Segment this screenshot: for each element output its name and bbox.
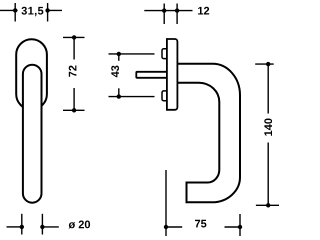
dim 12 right dot	[175, 8, 179, 12]
dim diameter 20 right dot	[40, 225, 44, 229]
screw top	[162, 49, 168, 59]
dim 12 right tick	[176, 4, 178, 25]
dim 12 left tick	[163, 4, 165, 25]
dim 31,5 label	[22, 7, 44, 16]
dim 140 line	[267, 64, 269, 205]
dim 72 label	[69, 66, 77, 77]
dim diameter 20 left dot	[20, 225, 24, 229]
dim diameter 20 right line	[42, 226, 58, 228]
dim 72 top dot	[72, 35, 76, 39]
spindle	[136, 72, 167, 78]
dim 31,5 right dot	[45, 8, 49, 12]
dim 43 top extension line	[109, 53, 155, 55]
dim 12 label	[198, 7, 209, 15]
dim 140 text bg	[261, 114, 276, 143]
dim 43 top dot	[117, 52, 121, 56]
dim 140 bottom tick	[256, 204, 279, 206]
dim 43 text bg	[109, 61, 122, 89]
dim 43 label	[111, 66, 119, 78]
dim 31,5 left dot	[13, 8, 17, 12]
dim diameter 20 left line	[7, 226, 22, 228]
dim 12 left dot	[162, 8, 166, 12]
dim 43 bottom extension line	[109, 96, 155, 98]
dim 43 line	[118, 54, 120, 97]
dim 72 line	[73, 37, 75, 110]
dim 140 bottom dot	[266, 203, 270, 207]
dim 75 right dot	[238, 225, 242, 229]
dim 140 top tick	[255, 63, 274, 65]
dim 140 top dot	[266, 62, 270, 66]
dim 72 top tick	[63, 36, 85, 38]
dim 140 label	[264, 118, 272, 135]
dim 31,5 line	[0, 9, 62, 11]
dim 75 line	[166, 226, 240, 228]
side view handle	[177, 64, 241, 203]
front view grip	[23, 65, 42, 203]
dim diameter 20 right tick	[41, 214, 43, 235]
side view rosette plate	[167, 39, 178, 110]
dim 31,5 text bg	[18, 4, 46, 18]
dim diameter 20 left tick	[21, 214, 23, 235]
dim 75 right extension line	[239, 214, 241, 236]
dim 72 bottom tick	[63, 109, 85, 111]
dim 75 left dot	[164, 225, 168, 229]
dim 75 label	[195, 220, 206, 228]
dim 43 bottom dot	[117, 94, 121, 98]
dim 75 left extension line	[165, 170, 167, 236]
dim 72 bottom dot	[72, 108, 76, 112]
dim 75 text bg	[182, 220, 224, 234]
dim 12 line	[144, 10, 192, 12]
dim 72 text bg	[66, 60, 81, 89]
dim 31,5 right tick	[47, 3, 49, 22]
front view rosette outline	[16, 39, 47, 109]
dim diameter 20 label	[69, 221, 91, 229]
dim 31,5 left tick	[14, 3, 16, 22]
screw bottom	[162, 91, 168, 101]
